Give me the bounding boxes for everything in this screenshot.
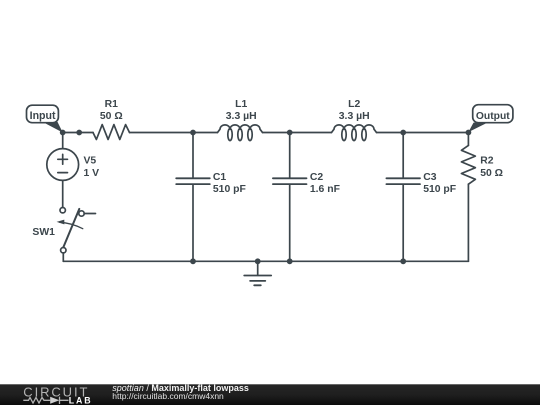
svg-text:http://circuitlab.com/cmw4xnn: http://circuitlab.com/cmw4xnn (112, 391, 224, 401)
svg-text:C3: C3 (423, 172, 437, 183)
svg-text:R1: R1 (105, 99, 119, 110)
svg-text:V5: V5 (84, 156, 97, 167)
svg-text:Input: Input (30, 110, 56, 122)
svg-text:1 V: 1 V (84, 168, 100, 179)
svg-text:LAB: LAB (69, 395, 93, 405)
svg-text:50 Ω: 50 Ω (100, 111, 123, 122)
svg-text:510 pF: 510 pF (213, 184, 246, 195)
svg-text:C2: C2 (310, 172, 324, 183)
svg-text:L1: L1 (235, 99, 247, 110)
svg-text:Output: Output (476, 111, 510, 122)
svg-text:3.3 µH: 3.3 µH (226, 111, 257, 122)
svg-text:SW1: SW1 (32, 227, 55, 238)
svg-text:1.6 nF: 1.6 nF (310, 184, 340, 195)
svg-text:3.3 µH: 3.3 µH (339, 111, 370, 122)
svg-text:C1: C1 (213, 172, 227, 183)
svg-text:R2: R2 (480, 156, 494, 167)
svg-text:510 pF: 510 pF (423, 184, 456, 195)
svg-text:L2: L2 (348, 99, 360, 110)
svg-text:50 Ω: 50 Ω (480, 168, 503, 179)
